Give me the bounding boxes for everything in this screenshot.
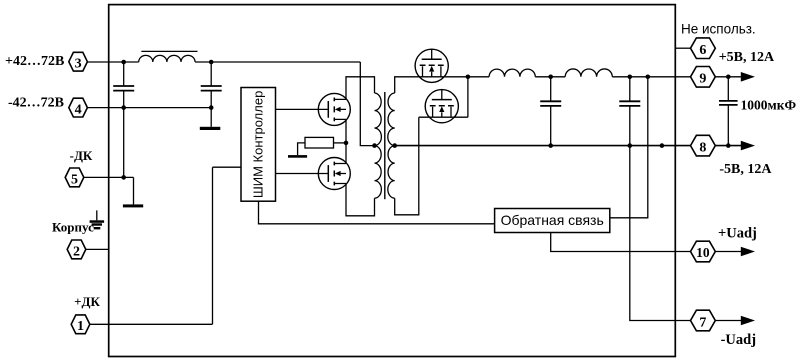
junction C4 top [628, 75, 633, 80]
junction pin 5 node [121, 175, 126, 180]
wire -42V rail [87, 107, 211, 109]
enclosure outline [109, 5, 676, 357]
wire R1 right lead [334, 142, 347, 144]
junction C2 bottom [209, 105, 214, 110]
junction C4 bottom [628, 143, 633, 148]
svg-text:2: 2 [73, 244, 80, 259]
pin 4 [69, 98, 88, 117]
wire pin 1 horizontal [90, 323, 213, 325]
capacitor C3 [540, 101, 561, 106]
capacitor C5 1000uF bottom lead [727, 105, 729, 146]
svg-text:6: 6 [699, 43, 706, 58]
wire +5V rail to pin 9 [612, 76, 690, 78]
wire Q1 source to switch node [345, 119, 347, 142]
chassis ground symbol bars [90, 220, 105, 229]
transformer T1 secondary winding [388, 93, 395, 198]
inductor input choke [139, 55, 195, 62]
wire Q1 drain to transformer [346, 77, 375, 100]
junction C3 bottom [548, 143, 553, 148]
capacitor C1 top lead [123, 62, 125, 86]
junction C2 top [209, 60, 214, 65]
pin 7 [691, 310, 716, 331]
pin 1 [71, 315, 90, 334]
junction primary center tap [372, 143, 377, 148]
svg-text:+Uadj: +Uadj [718, 225, 757, 241]
wire pin 1 riser [212, 167, 214, 324]
svg-text:5: 5 [71, 172, 78, 187]
op-amp U1 PWM controller box [241, 88, 276, 202]
svg-text:9: 9 [699, 72, 706, 87]
junction C1 bottom [121, 105, 126, 110]
capacitor C4 [619, 101, 640, 106]
pin 6 [691, 38, 716, 59]
capacitor C2 top lead [210, 62, 212, 86]
junction secondary center tap [392, 143, 397, 148]
wire secondary bottom to U4 [395, 117, 419, 215]
transformer T1 core [384, 92, 386, 199]
wire pin 10 output [715, 251, 743, 253]
transformer T1 primary winding [375, 93, 382, 198]
pin 8 [691, 135, 716, 156]
junction C1 top [121, 60, 126, 65]
capacitor C3 top lead [550, 77, 552, 102]
wire feedback sense from +5V rail [610, 77, 648, 218]
svg-text:10: 10 [696, 245, 710, 260]
pin 9 [691, 67, 716, 88]
wire 0V rail [395, 145, 691, 147]
ground bar R1 [288, 155, 307, 158]
pin 10 [691, 241, 716, 262]
inductor L2 [565, 69, 612, 77]
svg-text:+5В, 12А: +5В, 12А [719, 50, 775, 65]
ground bar under C2 [200, 127, 221, 130]
capacitor C3 bottom lead [550, 106, 552, 146]
capacitor C4 top lead [629, 77, 631, 102]
svg-text:1: 1 [77, 319, 84, 334]
junction output node [466, 75, 471, 80]
wire secondary top to output node [395, 77, 468, 93]
capacitor C1 [113, 86, 134, 91]
arrow pin 10 [741, 247, 755, 257]
wire Q2 drain to switch node [345, 143, 347, 164]
arrow pin 7 [741, 316, 755, 326]
svg-text:-Uadj: -Uadj [721, 332, 756, 348]
inductor core line [141, 50, 197, 52]
wire U4 line [419, 116, 468, 118]
capacitor C2 bottom lead [210, 91, 212, 108]
wire +42V rail right of choke [195, 61, 360, 63]
junction switch node [344, 141, 349, 146]
svg-text:4: 4 [75, 103, 82, 118]
svg-text:Не использ.: Не использ. [681, 22, 756, 37]
svg-text:8: 8 [699, 141, 706, 156]
junction C5 top [726, 75, 731, 80]
feedback box [495, 209, 610, 233]
wire pin 9 output [715, 76, 743, 78]
ground bar pin 5 [123, 204, 143, 207]
junction 0V rail [660, 143, 665, 148]
svg-text:Обратная связь: Обратная связь [501, 212, 604, 228]
wire U4 to output node [467, 77, 469, 117]
wire feedback to pin 10 [551, 233, 691, 252]
junction C5 bottom [726, 143, 731, 148]
transistor Q2 lower primary MOSFET [318, 158, 350, 190]
svg-text:3: 3 [75, 57, 82, 72]
svg-text:+42…72В: +42…72В [5, 54, 64, 69]
chassis ground symbol stem [96, 210, 98, 220]
wire R1 left lead to ground [298, 143, 305, 155]
svg-text:+ДК: +ДК [74, 294, 100, 309]
inductor L1 [489, 69, 535, 77]
pin 3 [69, 52, 88, 71]
transistor U4 lower sync rectifier MOSFET [425, 90, 458, 123]
svg-text:-ДК: -ДК [70, 148, 93, 163]
arrow pin 8 [741, 141, 755, 151]
wire +42V rail left [87, 61, 138, 63]
wire pin 8 output [715, 145, 743, 147]
transistor Q1 upper primary MOSFET [318, 93, 350, 125]
wire L1 to L2 [535, 76, 565, 78]
wire 0V to pin 7 [630, 146, 691, 321]
svg-text:-42…72В: -42…72В [8, 96, 64, 111]
capacitor C5 1000uF top lead [727, 77, 729, 101]
pin 5 [65, 168, 84, 187]
svg-text:-5В, 12А: -5В, 12А [719, 162, 772, 177]
wire gate drive Q2 [276, 173, 328, 175]
capacitor C2 [201, 86, 222, 91]
svg-text:ШИМ Контроллер: ШИМ Контроллер [251, 91, 266, 198]
capacitor C5 1000uF [719, 101, 738, 105]
wire pin 2 [86, 248, 109, 250]
wire C1 node to pin5 node [123, 108, 125, 178]
wire pin 7 output [715, 320, 743, 322]
wire Q2 source to transformer bottom [346, 184, 375, 216]
transistor U3 upper sync rectifier MOSFET [415, 49, 448, 82]
capacitor C1 bottom lead [123, 91, 125, 108]
wire +5V rail to L1 [468, 76, 489, 78]
wire pin 5 ground drop [133, 177, 135, 204]
wire pin 1 to PWM controller [213, 166, 242, 168]
wire PWM to feedback [259, 201, 495, 224]
resistor R1 [305, 137, 334, 148]
junction feedback tap [646, 75, 651, 80]
wire pin 6 stub [675, 47, 690, 49]
svg-text:1000мкФ: 1000мкФ [741, 97, 797, 112]
wire C2 to ground [210, 108, 212, 127]
wire gate drive Q1 [276, 108, 328, 110]
capacitor C4 bottom lead [629, 106, 631, 146]
svg-text:7: 7 [699, 315, 706, 330]
junction C3 top [548, 75, 553, 80]
arrow pin 9 [741, 72, 755, 82]
pin 2 [67, 240, 86, 259]
wire +42V feed to center tap [360, 62, 374, 146]
svg-text:Корпус: Корпус [52, 220, 94, 235]
wire pin 5 [84, 176, 134, 178]
